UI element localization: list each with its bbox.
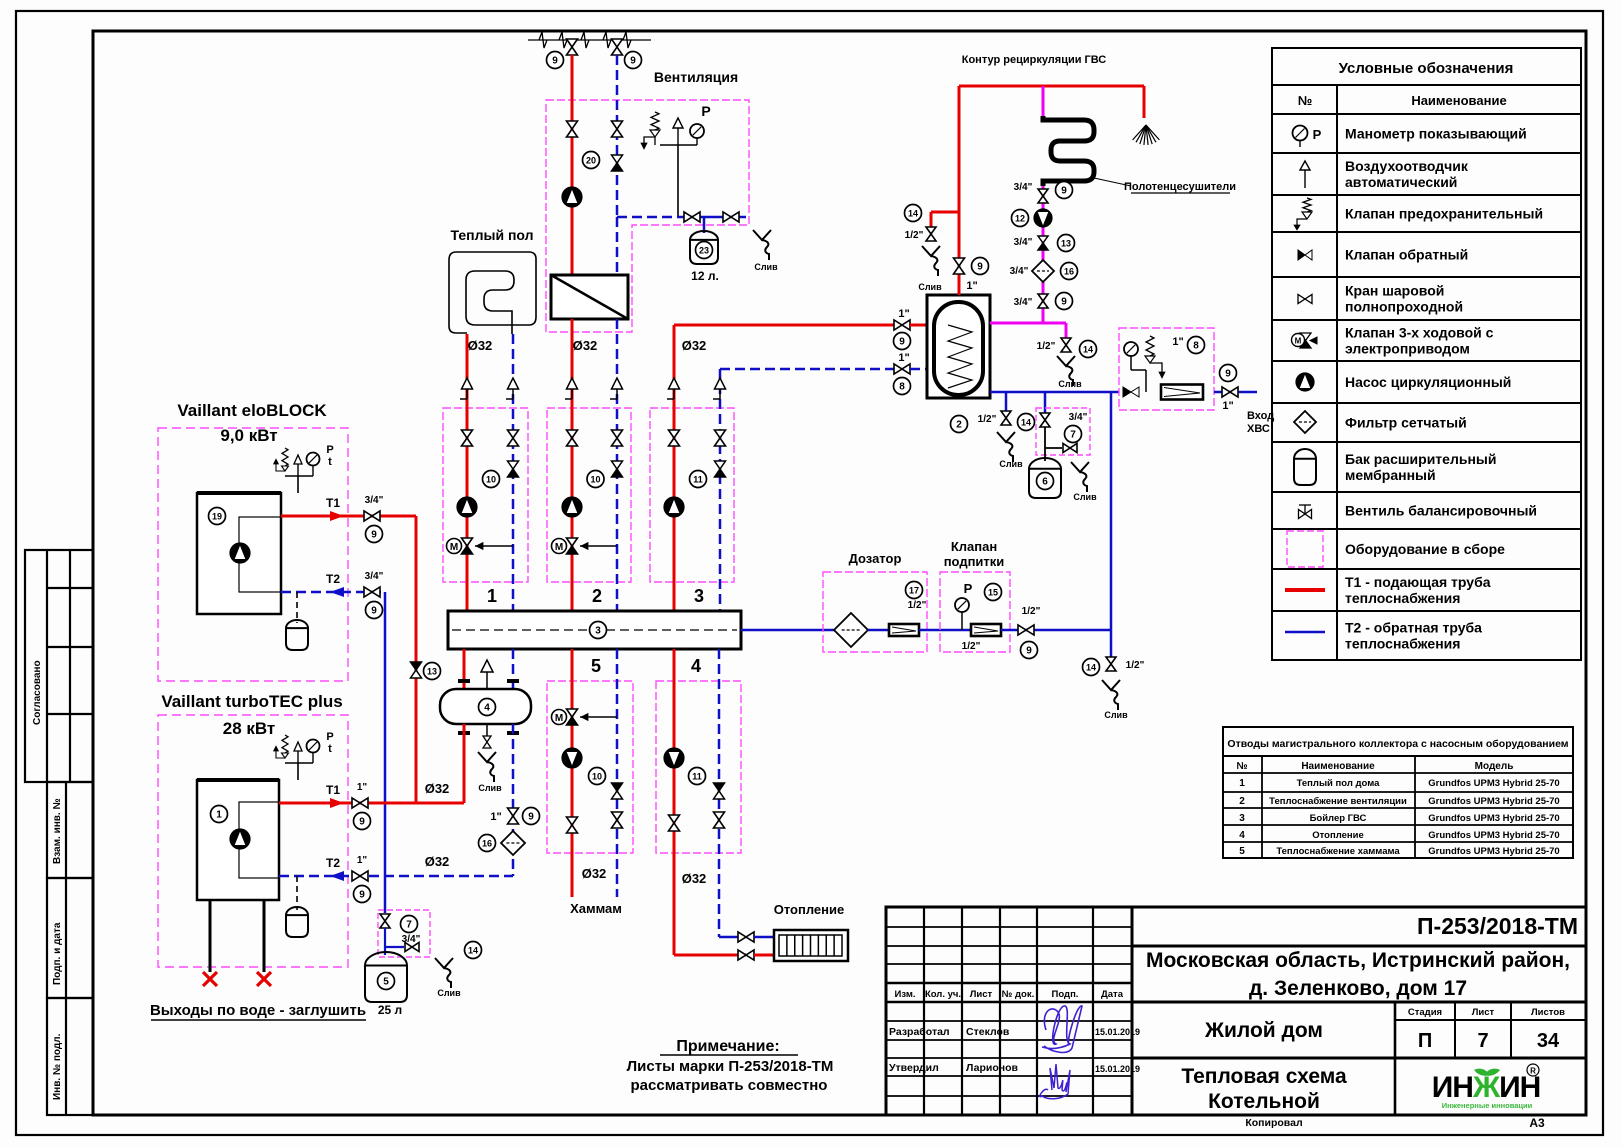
wire vent expansion branch: [617, 216, 678, 219]
label circle 2: [951, 416, 968, 433]
label circle 14: [465, 942, 482, 959]
wire T2 eloBLOCK: [281, 591, 385, 594]
svg-text:Инв. № подл.: Инв. № подл.: [52, 1033, 63, 1100]
svg-text:Ø32: Ø32: [468, 338, 493, 353]
wire heating return to radiator: [719, 936, 738, 939]
stamp cell Подп. и дата: [47, 878, 93, 998]
svg-text:11: 11: [692, 772, 702, 782]
label circle 9: [1056, 182, 1073, 199]
svg-text:Ø32: Ø32: [682, 871, 707, 886]
svg-text:Grundfos UPM3 Hybrid 25-70: Grundfos UPM3 Hybrid 25-70: [1428, 796, 1559, 807]
cut mark x2: [257, 972, 271, 986]
wire T1 eloBLOCK: [281, 515, 416, 518]
svg-text:10: 10: [590, 475, 600, 485]
svg-text:теплоснабжения: теплоснабжения: [1345, 636, 1460, 652]
title block stage cells: [1395, 1019, 1586, 1021]
svg-text:рассматривать совместно: рассматривать совместно: [631, 1077, 828, 1094]
svg-text:8: 8: [899, 382, 905, 393]
wire return: [512, 334, 515, 611]
label circle 8: [894, 378, 911, 395]
label circle 16: [1061, 263, 1078, 280]
radiator: [774, 930, 848, 961]
flange ticks bottom: [458, 731, 470, 735]
svg-text:Теплый пол: Теплый пол: [451, 227, 534, 243]
svg-text:мембранный: мембранный: [1345, 467, 1436, 483]
svg-text:Слив: Слив: [478, 783, 502, 793]
drain funnel vent: [753, 230, 771, 240]
air vent return: [610, 398, 617, 400]
legend symbol manometer: [1293, 126, 1308, 141]
legend symbol assembled equipment box: [1287, 531, 1323, 567]
wire dozator out: [919, 629, 972, 632]
check valve hammam return: [612, 783, 623, 791]
svg-text:1/2": 1/2": [905, 230, 924, 241]
svg-text:9: 9: [1026, 646, 1032, 657]
svg-text:Теплый пол дома: Теплый пол дома: [1297, 778, 1381, 789]
label circle 9: [366, 526, 383, 543]
valve 1/2" drain: [926, 227, 936, 234]
label circle 14: [1083, 659, 1100, 676]
svg-text:1/2": 1/2": [908, 600, 927, 611]
equipment box 7 makeup left: [378, 910, 430, 957]
svg-text:1: 1: [487, 586, 497, 606]
expansion vessel eloBLOCK: [296, 592, 298, 623]
wire T1 to GVS tank: [674, 324, 894, 327]
svg-text:9: 9: [1061, 186, 1067, 197]
valve 1" GVS supply: [954, 258, 965, 266]
boiler turboTEC bottom stubs: [209, 900, 212, 972]
wire towel rail return chain: [1042, 186, 1045, 323]
svg-text:Ø32: Ø32: [425, 781, 450, 796]
svg-text:P: P: [701, 103, 710, 119]
wire hammam return: [616, 649, 619, 897]
svg-text:Вентиляция: Вентиляция: [654, 69, 738, 85]
valve heating supply: [669, 815, 680, 823]
wire heating return: [718, 649, 721, 937]
svg-text:14: 14: [468, 946, 478, 956]
svg-text:П-253/2018-ТМ: П-253/2018-ТМ: [1417, 913, 1578, 939]
valve return: [612, 430, 623, 438]
svg-text:подпитки: подпитки: [944, 554, 1005, 569]
legend table Условные обозначения: [1272, 48, 1581, 660]
pump heating: [664, 748, 684, 768]
svg-text:M: M: [450, 542, 458, 553]
svg-text:4: 4: [1239, 830, 1245, 841]
svg-text:M: M: [1295, 337, 1302, 346]
svg-text:14: 14: [1086, 663, 1096, 673]
svg-text:16: 16: [482, 839, 492, 849]
svg-text:3: 3: [694, 586, 704, 606]
valve on vent return: [612, 121, 623, 129]
svg-text:17: 17: [909, 586, 919, 596]
svg-text:1": 1": [898, 352, 909, 364]
svg-text:Листов: Листов: [1531, 1007, 1565, 1018]
svg-text:P: P: [326, 731, 333, 743]
svg-text:3/4": 3/4": [1014, 182, 1033, 193]
label circle 11: [689, 768, 706, 785]
separator drain valve: [486, 724, 488, 737]
wire vent return riser T2: [616, 55, 619, 217]
svg-text:13: 13: [1061, 239, 1071, 249]
title block code П-253/2018-ТМ: [1132, 945, 1586, 948]
svg-text:3: 3: [595, 626, 601, 637]
svg-text:3/4": 3/4": [365, 571, 384, 582]
air vent return: [506, 398, 513, 400]
svg-text:Насос циркуляционный: Насос циркуляционный: [1345, 374, 1511, 390]
svg-text:Бак расширительный: Бак расширительный: [1345, 451, 1496, 467]
wire hammam supply: [571, 649, 574, 897]
svg-text:Слив: Слив: [754, 262, 778, 272]
wire GVS recirculation top: [959, 85, 1144, 88]
valve 1/2" 14 drain: [1001, 411, 1011, 418]
hydraulic separator 4: [440, 689, 531, 724]
svg-text:19: 19: [212, 512, 222, 522]
label circle 9: [354, 813, 371, 830]
valve 3/4" T1: [364, 511, 372, 521]
drain funnel recirc: [1057, 356, 1075, 366]
valve supply: [669, 430, 680, 438]
svg-text:1: 1: [1239, 778, 1245, 789]
label circle 9: [547, 52, 564, 69]
svg-text:Клапан: Клапан: [951, 539, 997, 554]
svg-text:Grundfos UPM3 Hybrid 25-70: Grundfos UPM3 Hybrid 25-70: [1428, 846, 1559, 857]
legend symbol strainer filter: [1294, 411, 1316, 433]
svg-text:9: 9: [371, 606, 377, 617]
svg-text:Лист: Лист: [1472, 1007, 1495, 1018]
svg-text:Примечание:: Примечание:: [676, 1038, 779, 1055]
legend symbol T2 line: [1285, 631, 1325, 634]
label circle 17: [906, 582, 923, 599]
label circle: [483, 471, 500, 488]
valve 3/4" 9 lower: [1038, 294, 1048, 301]
svg-text:12: 12: [1015, 214, 1025, 224]
svg-text:д. Зеленково, дом 17: д. Зеленково, дом 17: [1249, 977, 1467, 1000]
ball valve 1" T2 tank: [894, 364, 902, 374]
label circle 19: [209, 508, 226, 525]
svg-text:8: 8: [1193, 341, 1199, 352]
svg-text:R: R: [1530, 1067, 1536, 1076]
boiler turboTEC instruments: [297, 763, 299, 780]
svg-text:15.01.2019: 15.01.2019: [1095, 1064, 1140, 1074]
circulation pump: [664, 497, 684, 517]
svg-text:9: 9: [359, 890, 365, 901]
label circle 13: [1058, 235, 1075, 252]
svg-text:Наименование: Наименование: [1301, 761, 1375, 772]
svg-text:ИНЖИН: ИНЖИН: [1432, 1071, 1541, 1104]
wire drain at junction: [1110, 631, 1113, 658]
label circle 9: [972, 258, 989, 275]
svg-text:Манометр показывающий: Манометр показывающий: [1345, 126, 1527, 142]
floor heating coil: [449, 252, 536, 334]
svg-text:T2: T2: [326, 572, 340, 586]
svg-text:Слив: Слив: [437, 988, 461, 998]
valve return: [715, 430, 726, 438]
label circle 9: [1220, 365, 1237, 382]
label circle 13: [424, 663, 441, 680]
svg-text:Ø32: Ø32: [573, 338, 598, 353]
3-way valve hammam: [580, 716, 617, 718]
ball valve radiator return: [738, 932, 746, 942]
svg-text:1": 1": [898, 308, 909, 320]
wire T2 riser solid: [384, 592, 387, 876]
legend symbol 3-way valve: [1300, 333, 1311, 341]
ball valve makeup right: [1063, 444, 1070, 453]
svg-text:9: 9: [528, 812, 534, 823]
air vent separator: [486, 672, 488, 689]
svg-text:Т2 - обратная труба: Т2 - обратная труба: [1345, 620, 1482, 636]
ball valve inlet: [1222, 387, 1230, 397]
svg-text:9: 9: [1061, 297, 1067, 308]
valve hammam return: [612, 812, 623, 820]
strainer dozator: [834, 613, 868, 647]
boiler turboTEC body: [197, 780, 279, 900]
label circle 7: [1065, 426, 1082, 443]
svg-text:Инженерные инновации: Инженерные инновации: [1442, 1101, 1533, 1110]
valve 1" return: [508, 808, 519, 816]
dozator cartridge: [889, 624, 919, 636]
svg-text:№: №: [1298, 93, 1313, 108]
ball valve expansion branch right: [723, 212, 731, 222]
svg-text:Ø32: Ø32: [425, 854, 450, 869]
svg-text:1": 1": [1222, 400, 1233, 412]
drain funnel separator: [478, 752, 496, 762]
svg-text:Согласовано: Согласовано: [32, 660, 43, 725]
svg-text:1/2": 1/2": [1037, 341, 1056, 352]
svg-text:T1: T1: [326, 496, 340, 510]
svg-text:Листы марки П-253/2018-ТМ: Листы марки П-253/2018-ТМ: [627, 1058, 834, 1075]
svg-text:25 л: 25 л: [378, 1003, 402, 1017]
equipment box heating pump group: [656, 681, 741, 853]
svg-text:автоматический: автоматический: [1345, 174, 1457, 190]
svg-text:9,0 кВт: 9,0 кВт: [220, 426, 277, 445]
svg-text:Контур рециркуляции ГВС: Контур рециркуляции ГВС: [962, 54, 1107, 66]
circulation pump: [457, 497, 477, 517]
svg-text:Наименование: Наименование: [1411, 93, 1506, 108]
GVS drain branch: [931, 211, 959, 214]
svg-text:Т1 - подающая труба: Т1 - подающая труба: [1345, 574, 1491, 590]
equipment box Vaillant eloBLOCK: [158, 428, 348, 681]
equipment box Vaillant turboTEC plus: [158, 715, 348, 967]
wire return to makeup box: [384, 876, 387, 913]
svg-text:Копировал: Копировал: [1245, 1117, 1302, 1129]
air vent automatic: [677, 128, 679, 145]
svg-text:Взам. инв. №: Взам. инв. №: [52, 798, 63, 864]
svg-text:5: 5: [591, 656, 601, 676]
pump vent circuit: [562, 187, 582, 207]
svg-text:Оборудование в сборе: Оборудование в сборе: [1345, 541, 1505, 557]
svg-text:3/4": 3/4": [1010, 266, 1029, 277]
manometer P: [696, 138, 698, 145]
wire T2 from GVS tank: [720, 368, 894, 371]
svg-text:9: 9: [359, 817, 365, 828]
wire GVS supply riser: [958, 86, 961, 295]
svg-text:2: 2: [956, 420, 962, 431]
svg-text:Vaillant turboTEC plus: Vaillant turboTEC plus: [161, 692, 342, 711]
svg-text:9: 9: [371, 530, 377, 541]
svg-text:№ док.: № док.: [1002, 989, 1034, 1000]
svg-text:Grundfos UPM3 Hybrid 25-70: Grundfos UPM3 Hybrid 25-70: [1428, 813, 1559, 824]
label circle: [690, 471, 707, 488]
svg-text:Vaillant eloBLOCK: Vaillant eloBLOCK: [177, 401, 327, 420]
svg-text:Слив: Слив: [918, 282, 942, 292]
check valve return: [612, 461, 623, 469]
svg-text:Клапан 3-х ходовой с: Клапан 3-х ходовой с: [1345, 325, 1494, 341]
boiler eloBLOCK body: [197, 493, 281, 614]
valve hammam supply: [567, 817, 578, 825]
valve 20 supply: [567, 121, 578, 129]
label circle 9: [625, 52, 642, 69]
valve on vent supply riser at ceiling: [567, 39, 578, 47]
equipment box Вентиляция: [546, 100, 749, 332]
makeup valve cartridge: [971, 624, 1001, 636]
svg-text:Модель: Модель: [1475, 761, 1514, 772]
svg-text:P: P: [964, 581, 973, 596]
svg-text:ХВС: ХВС: [1247, 423, 1270, 435]
equipment box Клапан подпитки: [940, 572, 1010, 652]
svg-text:Теплоснабжение вентиляции: Теплоснабжение вентиляции: [1269, 796, 1407, 807]
equipment box pressure reducer 8: [1119, 328, 1214, 410]
check valve return: [508, 461, 519, 469]
check valve heating return: [714, 783, 725, 791]
legend symbol check valve: [1298, 250, 1305, 260]
wire dozator mid: [868, 629, 890, 632]
wire supply: [673, 325, 676, 611]
valve 3/4" T2: [364, 587, 372, 597]
legend symbol expansion tank: [1294, 449, 1316, 485]
wire makeup to dozator junction: [1110, 392, 1113, 631]
signature 1: [1042, 1006, 1082, 1053]
heat exchanger ventilation: [551, 275, 628, 319]
svg-text:28 кВт: 28 кВт: [223, 719, 276, 738]
valve supply: [567, 430, 578, 438]
ball valve radiator supply: [738, 950, 746, 960]
approval stamp grid: [25, 550, 93, 782]
svg-text:P: P: [1313, 127, 1322, 142]
svg-text:3/4": 3/4": [1069, 412, 1088, 423]
air vent supply: [565, 398, 572, 400]
wire after makeup valve: [1001, 629, 1111, 632]
pump 12 GVS recirculation: [1034, 209, 1052, 227]
svg-text:10: 10: [486, 475, 496, 485]
label circle 9: [894, 333, 911, 350]
reducer pilot: [1146, 336, 1154, 356]
svg-text:Тепловая схема: Тепловая схема: [1181, 1065, 1347, 1088]
ball valve expansion branch left: [684, 212, 692, 222]
drain funnel GVS: [922, 246, 940, 256]
svg-text:7: 7: [1070, 430, 1076, 441]
check valve 13: [411, 662, 422, 670]
svg-text:Теплоснабжение хаммама: Теплоснабжение хаммама: [1276, 846, 1400, 857]
svg-text:9: 9: [552, 56, 558, 67]
wire tank to recirculation: [990, 322, 1066, 325]
svg-text:9: 9: [899, 337, 905, 348]
svg-text:Вентиль балансировочный: Вентиль балансировочный: [1345, 503, 1537, 519]
svg-text:Дозатор: Дозатор: [849, 551, 902, 566]
svg-text:Подп.: Подп.: [1052, 989, 1079, 1000]
drain funnel near tank5: [435, 958, 453, 968]
svg-text:15: 15: [988, 588, 998, 598]
label circle 10: [589, 768, 606, 785]
manometer reducer: [1124, 342, 1138, 356]
label circle 14: [1018, 414, 1035, 431]
stamp cell Инв. № подл.: [47, 998, 93, 1115]
boiler eloBLOCK instruments: [297, 476, 299, 493]
wire heating supply: [673, 649, 676, 955]
svg-text:4: 4: [691, 656, 701, 676]
svg-text:Ø32: Ø32: [682, 338, 707, 353]
valve 3/4" 9: [1038, 189, 1048, 196]
label circle: [587, 471, 604, 488]
legend symbol air vent: [1304, 170, 1306, 188]
title block object name: [1132, 1057, 1586, 1060]
valve makeup: [380, 914, 390, 921]
wire makeup down: [384, 928, 386, 955]
label circle 8: [1188, 337, 1205, 354]
svg-text:Клапан обратный: Клапан обратный: [1345, 247, 1468, 263]
wire collector return out: [741, 629, 834, 632]
svg-text:Бойлер ГВС: Бойлер ГВС: [1310, 813, 1367, 824]
svg-text:1/2": 1/2": [962, 641, 981, 652]
label circle 14: [905, 205, 922, 222]
wire boiler supply header: [416, 802, 464, 805]
svg-text:11: 11: [693, 475, 703, 485]
expansion tank 5: [365, 952, 407, 1002]
svg-text:14: 14: [908, 209, 918, 219]
svg-text:t: t: [328, 456, 332, 468]
pointer to label: [1094, 178, 1131, 186]
svg-text:№: №: [1236, 761, 1247, 772]
GVS tank coil: [948, 325, 972, 388]
air vent return: [713, 398, 720, 400]
wire cold water inlet: [1214, 391, 1257, 394]
svg-text:P: P: [326, 444, 333, 456]
svg-text:3/4": 3/4": [1014, 297, 1033, 308]
svg-text:7: 7: [406, 920, 412, 931]
check valve 13 GVS: [1038, 236, 1048, 243]
wire T1 turboTEC: [279, 802, 464, 805]
svg-text:16: 16: [1064, 267, 1074, 277]
svg-text:Клапан предохранительный: Клапан предохранительный: [1345, 206, 1543, 222]
equipment box pump group: [547, 408, 631, 582]
svg-text:t: t: [328, 743, 332, 755]
svg-text:4: 4: [484, 703, 490, 714]
svg-text:электроприводом: электроприводом: [1345, 341, 1470, 357]
svg-text:34: 34: [1537, 1030, 1560, 1052]
legend symbol ball valve: [1298, 295, 1305, 304]
svg-text:T1: T1: [326, 783, 340, 797]
svg-text:Лист: Лист: [970, 989, 993, 1000]
label circle 14: [1080, 341, 1097, 358]
expansion tank 23: [690, 231, 718, 264]
legend symbol pump: [1296, 373, 1314, 391]
svg-text:Слив: Слив: [999, 459, 1023, 469]
wire towel rail feed: [1042, 86, 1045, 116]
strainer 16 GVS: [1032, 260, 1054, 282]
svg-text:3: 3: [1239, 813, 1245, 824]
svg-text:Grundfos UPM3 Hybrid 25-70: Grundfos UPM3 Hybrid 25-70: [1428, 778, 1559, 789]
svg-text:1/2": 1/2": [1022, 606, 1041, 617]
3-way valve with actuator: [580, 545, 617, 547]
svg-text:Подп. и дата: Подп. и дата: [52, 922, 63, 985]
svg-text:Утвердил: Утвердил: [889, 1062, 939, 1074]
wire return: [616, 319, 619, 611]
equipment box 7 makeup right: [1036, 408, 1090, 455]
check valve return: [715, 461, 726, 469]
svg-text:14: 14: [1021, 418, 1031, 428]
svg-text:Условные обозначения: Условные обозначения: [1339, 60, 1514, 77]
valve 1" T2: [352, 871, 360, 881]
svg-text:Grundfos UPM3 Hybrid 25-70: Grundfos UPM3 Hybrid 25-70: [1428, 830, 1559, 841]
